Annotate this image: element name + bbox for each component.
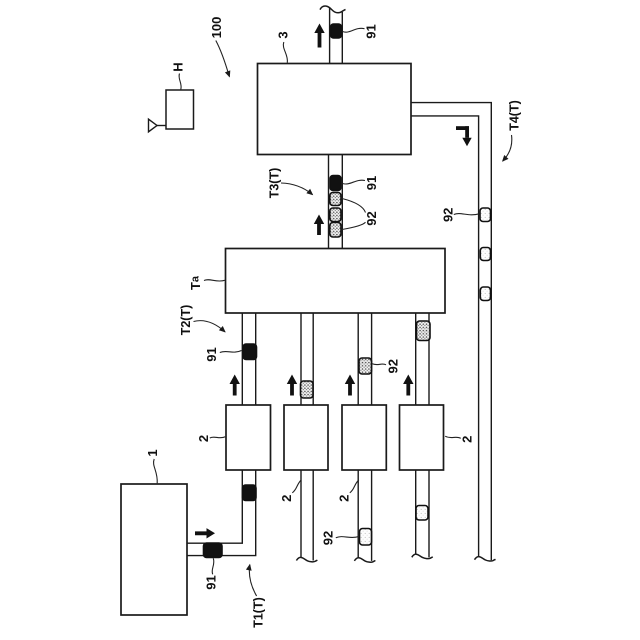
sensor 92 (stippled) on runner pipe D: [417, 321, 431, 341]
svg-text:T4(T): T4(T): [508, 100, 522, 131]
svg-text:91: 91: [364, 176, 379, 190]
wire: runner pipe D (rightmost) between box Ta and box 2: [416, 313, 429, 406]
svg-text:Ta: Ta: [188, 275, 203, 290]
flow arrow up above box Ta: [314, 215, 324, 236]
leader from label 92 to pipe C sensor: [372, 364, 386, 365]
leader from label 91 to inlet pipe sensor: [212, 558, 214, 574]
wire: tailpipe above box 3: [330, 8, 343, 64]
svg-text:92: 92: [321, 531, 336, 545]
wire: exhaust pipe between box 3 and box Ta: [329, 154, 343, 249]
box 3 (downstream unit): [258, 64, 412, 155]
sensor 91 (black) on horizontal inlet pipe: [204, 543, 223, 558]
elbow flow arrow (down) inside T4 corner: [456, 126, 472, 146]
svg-text:91: 91: [204, 347, 219, 361]
sensor (black) on pipe A below box 2: [243, 485, 257, 501]
svg-text:T3(T): T3(T): [268, 168, 282, 199]
box 2 #1: [226, 405, 271, 470]
wavy break at top of tailpipe: [320, 6, 346, 13]
svg-text:T1(T): T1(T): [251, 597, 265, 628]
svg-text:92: 92: [441, 208, 456, 222]
box 1 (engine): [121, 484, 187, 615]
svg-text:2: 2: [279, 495, 294, 502]
sensor 92 (stippled) on runner pipe C: [359, 358, 372, 374]
sensor 92 (light) on pipe T4 lower: [480, 287, 490, 301]
wire: pipe below box 2 B: [301, 470, 313, 561]
leader brace from stippled sensors to label 92 (upper branch): [342, 199, 366, 213]
box 2 #3: [342, 405, 386, 470]
svg-text:100: 100: [209, 17, 224, 39]
wavy break at bottom of pipe B: [296, 557, 317, 561]
leader from label 2 to pipe below box 2 #2: [292, 480, 301, 493]
leader from label Ta to box Ta: [204, 280, 225, 281]
leader from sensor to label 91 (top): [343, 28, 365, 32]
flow arrow up on runner pipe A: [230, 375, 240, 396]
flow arrow right at engine outlet: [195, 528, 215, 538]
flow arrow up on runner pipe D: [403, 375, 413, 396]
sensor 92 (stippled) #2 below box 3: [330, 208, 341, 222]
wire: runner pipe B between box Ta and box 2: [301, 313, 313, 406]
sensor 92 (light) on pipe D below box 2: [416, 506, 428, 521]
wire: bypass pipe T4 from box 3 right side down: [411, 103, 491, 561]
leader arrow from label T3(T) to pipe: [281, 183, 313, 195]
svg-text:2: 2: [196, 435, 211, 442]
leader from label 2 to box 2 #1: [210, 437, 226, 438]
box Ta (collector): [226, 249, 446, 314]
sensor 92 (stippled) #3 below box 3: [330, 223, 341, 238]
antenna symbol on box H: [149, 119, 167, 132]
sensor 91 (black) below box 3: [330, 176, 341, 191]
svg-text:91: 91: [204, 575, 219, 589]
leader from label 2 to box 2 #4: [445, 436, 461, 438]
wire: runner pipe A (leftmost) between box Ta and box 2: [242, 313, 255, 406]
svg-text:92: 92: [385, 359, 400, 373]
leader from label 2 to pipe below box 2 #3: [350, 480, 359, 493]
svg-text:2: 2: [460, 436, 475, 443]
svg-text:2: 2: [337, 495, 352, 502]
leader from label 3 to box 3: [283, 42, 287, 63]
leader from label 92 to pipe C lower sensor: [336, 537, 359, 538]
leader arrow from label T1(T) to inlet pipe elbow: [249, 565, 256, 596]
sensor 92 (light) on pipe T4 middle: [480, 248, 490, 261]
sensor 92 (light) on pipe T4 upper: [480, 208, 491, 222]
svg-text:1: 1: [145, 449, 160, 456]
box 2 #4: [400, 405, 444, 470]
wavy break at bottom of pipe D: [412, 554, 433, 558]
wavy break at bottom of pipe C: [354, 558, 375, 562]
leader arrow from label 100: [216, 41, 230, 77]
wire: pipe below box 2 D: [416, 470, 429, 558]
flow arrow up on runner pipe B: [287, 375, 297, 396]
leader from label 92 to T4 sensor: [454, 214, 480, 215]
svg-text:91: 91: [364, 24, 379, 38]
leader from black sensor to label 91 (mid): [343, 180, 366, 184]
leader brace from stippled sensors to label 92 (lower branch): [342, 222, 366, 229]
svg-text:H: H: [171, 62, 186, 71]
flow arrow up at tailpipe: [314, 24, 324, 48]
wire: pipe below box 2 C: [358, 470, 371, 561]
sensor 91 (black) on runner pipe A above box 2: [243, 344, 257, 360]
wire: runner pipe C between box Ta and box 2: [358, 313, 371, 406]
sensor 92 (stippled) #1 below box 3: [330, 193, 341, 206]
svg-text:3: 3: [276, 31, 291, 38]
leader from label 1 to box 1: [154, 459, 158, 483]
leader from label H to box H: [179, 74, 181, 90]
leader arrow from label T2(T) to runner pipe A: [194, 321, 226, 332]
svg-text:T2(T): T2(T): [179, 305, 193, 336]
sensor 92 (stippled) on runner pipe B: [301, 381, 314, 398]
leader from label 91 to pipe A sensor: [220, 351, 242, 353]
flow arrow up on runner pipe C: [345, 375, 355, 396]
sensor 91 (black) on tailpipe top: [331, 24, 342, 38]
sensor 92 (light) on pipe C below box 2: [360, 529, 372, 546]
wire: inlet pipe from box 1 up to leftmost box 2 (elbow): [187, 470, 256, 556]
wavy break at bottom of pipe T4: [475, 557, 496, 561]
box 2 #2: [284, 405, 328, 470]
box H (transmitter): [166, 90, 194, 129]
svg-text:92: 92: [364, 211, 379, 225]
leader arrow from label T4(T) to pipe T4: [503, 135, 512, 161]
